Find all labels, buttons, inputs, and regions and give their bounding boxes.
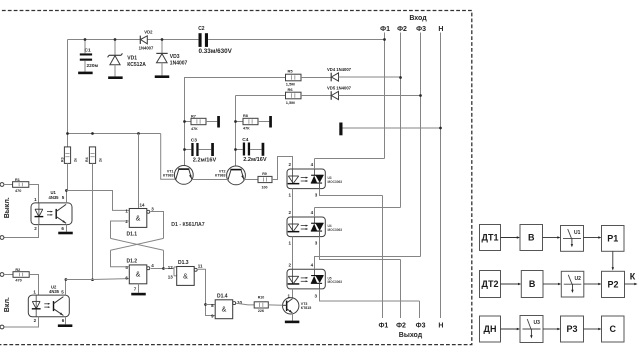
svg-text:R4: R4	[85, 157, 89, 162]
optocoupler U4	[287, 217, 325, 237]
svg-text:КТ815: КТ815	[301, 306, 311, 310]
gate D1.4	[215, 300, 233, 319]
wire Н column	[440, 33, 442, 319]
wire D1.3 out	[198, 269, 215, 315]
wire to D1.2 pin5	[111, 250, 130, 266]
node R4 junction	[91, 278, 94, 281]
capacitor C2	[199, 33, 202, 47]
wire D1.2 pin7	[138, 284, 140, 293]
svg-text:R9: R9	[262, 172, 267, 176]
svg-text:C4: C4	[242, 137, 248, 143]
svg-text:Вкл.: Вкл.	[4, 297, 11, 312]
svg-text:Н: Н	[438, 26, 443, 33]
resistor R7	[185, 121, 192, 123]
wire top rail y40	[68, 39, 141, 41]
dashed enclosure border	[0, 11, 472, 345]
wire U2 pin5	[65, 280, 67, 296]
svg-text:Н: Н	[438, 323, 443, 330]
terminal Вкл lower	[0, 325, 4, 329]
svg-text:14: 14	[140, 202, 146, 207]
svg-text:1,5М: 1,5М	[286, 100, 296, 105]
ground VD1	[108, 76, 123, 79]
svg-text:12: 12	[168, 265, 174, 270]
svg-text:Ф2: Ф2	[397, 26, 407, 33]
capacitor plate after C3	[199, 149, 212, 151]
diode VD2	[139, 36, 141, 44]
wire to D1.3 inputs	[164, 268, 175, 270]
wire R6-VD5	[301, 95, 331, 97]
arrow ДТ2-В	[501, 283, 519, 285]
wire U1 pin6	[66, 225, 68, 232]
optocoupler U1	[31, 203, 72, 225]
gate D1.2	[129, 265, 147, 284]
svg-text:C3: C3	[191, 137, 197, 143]
svg-text:Ф3: Ф3	[416, 26, 426, 33]
wire U3-U4 led link	[292, 189, 294, 217]
block С	[602, 316, 625, 342]
svg-text:МОС3063: МОС3063	[328, 280, 343, 284]
svg-text:В: В	[529, 279, 536, 289]
ground C1	[78, 72, 93, 75]
wire Ф2 output column	[400, 260, 402, 319]
wire U2 pin2 return	[4, 317, 39, 327]
svg-text:&: &	[183, 273, 188, 280]
wire VT1 collector feed	[184, 77, 186, 166]
svg-text:VD4 1N4007: VD4 1N4007	[327, 67, 352, 72]
wire R6 feed	[236, 95, 286, 97]
wire D1.4 out	[236, 303, 254, 305]
wire R10 to VT3	[268, 304, 282, 306]
wire C2 to Ф1	[208, 39, 384, 41]
wire U4-U5 led link	[292, 237, 294, 270]
block U1 isolator	[561, 226, 584, 252]
capacitor plate after C4	[250, 149, 262, 151]
wire U4 pin4	[314, 208, 316, 218]
wire VT2 to R9	[244, 179, 258, 181]
wire cross diag B	[111, 238, 164, 250]
svg-text:МОС3063: МОС3063	[328, 180, 343, 184]
svg-text:D1.4: D1.4	[217, 294, 228, 300]
wire U4 pin4 to Ф2	[315, 207, 401, 209]
wire D1.1 pin3 cross	[151, 212, 164, 239]
wire VT1-VT2 emitters	[192, 179, 228, 181]
transistor VT3	[283, 298, 299, 314]
wire U2 pin5 to D1.2	[66, 278, 130, 281]
block ДН	[480, 316, 501, 342]
svg-text:100: 100	[262, 185, 268, 189]
block ДТ2	[480, 271, 501, 298]
resistor R6	[286, 92, 302, 99]
wire left vertical drop	[67, 40, 69, 147]
resistor R10	[254, 302, 268, 308]
wire U1 pin2 return	[4, 225, 39, 238]
svg-text:D1.2: D1.2	[127, 258, 138, 264]
svg-text:VD3: VD3	[170, 54, 180, 60]
arrow В-U1	[543, 237, 558, 239]
svg-text:470: 470	[15, 279, 21, 283]
block U2 isolator	[561, 271, 584, 297]
ground D1.2	[131, 293, 146, 296]
wire Ф1 output column	[382, 196, 384, 319]
transistor VT1	[174, 166, 193, 185]
wire R1 to U1 pin1	[29, 185, 39, 203]
arrow ДН-U3	[501, 328, 518, 330]
svg-text:К: К	[630, 272, 636, 282]
svg-text:VD2: VD2	[144, 29, 153, 34]
ground U1	[58, 232, 73, 235]
svg-text:Выход: Выход	[399, 332, 423, 339]
block В lower	[521, 271, 543, 298]
svg-text:C2: C2	[198, 26, 205, 32]
capacitor plate after R7	[206, 121, 217, 123]
arrow U1-Р1	[584, 237, 599, 239]
node rail/pin14	[137, 132, 140, 135]
arrow ДТ1-В	[501, 237, 518, 239]
svg-text:R3: R3	[61, 157, 65, 162]
svg-text:ДН: ДН	[484, 324, 497, 334]
block В upper	[520, 225, 543, 251]
svg-text:220м: 220м	[87, 63, 99, 69]
wire D1.1 pin2 cross	[111, 221, 130, 238]
node rail/R4	[91, 132, 94, 135]
terminal Вкл upper	[0, 273, 4, 277]
block U3 isolator	[520, 316, 543, 343]
arrow U3-Р3	[543, 328, 558, 330]
wire U3 pin4	[314, 159, 316, 170]
svg-text:D1 - К561ЛА7: D1 - К561ЛА7	[171, 222, 204, 228]
node U1 pin5 junction	[65, 189, 68, 192]
diode VD4	[330, 73, 332, 82]
svg-text:470: 470	[15, 189, 21, 193]
svg-text:R10: R10	[258, 296, 265, 300]
wire R5 feed	[185, 77, 286, 79]
ground U2	[58, 324, 73, 327]
svg-text:U2: U2	[575, 276, 582, 282]
wire U5 pin3	[320, 289, 420, 301]
svg-text:&: &	[136, 215, 141, 222]
wire R2 to U2 pin1	[29, 275, 38, 296]
arrow Р2-К	[625, 283, 635, 285]
svg-text:КТ983: КТ983	[163, 174, 173, 178]
diode VD1	[114, 40, 116, 56]
resistor R4	[89, 147, 95, 164]
block Р1	[602, 226, 625, 252]
node VD5/Ф3	[419, 94, 422, 97]
gate D1.1	[129, 209, 147, 228]
optocoupler U2	[28, 295, 69, 317]
ground VT3	[285, 321, 300, 324]
resistor R3	[64, 147, 70, 164]
arrow U2-Р2	[584, 283, 599, 285]
svg-text:C1: C1	[85, 47, 91, 53]
node D1.4 input junction	[204, 303, 207, 306]
wire VT1 base	[161, 134, 176, 180]
svg-text:R8: R8	[243, 114, 248, 118]
wire to D1.4 pin8	[206, 304, 216, 306]
wire VT3 emitter	[292, 314, 294, 321]
svg-text:Р1: Р1	[607, 233, 618, 243]
svg-text:МОС3063: МОС3063	[328, 228, 343, 232]
wire R5-VD4	[301, 77, 331, 79]
svg-text:4N35: 4N35	[49, 195, 60, 200]
svg-text:КС512А: КС512А	[127, 62, 146, 68]
svg-text:ДТ1: ДТ1	[482, 233, 499, 243]
svg-text:Р3: Р3	[566, 324, 577, 334]
wire D1.2 out	[151, 250, 164, 268]
svg-text:U1: U1	[574, 230, 581, 236]
arrow Р3-С	[584, 328, 599, 330]
wire Ф3 input column	[420, 33, 422, 257]
wire VT2 collector feed	[235, 96, 237, 167]
optocoupler U3	[287, 169, 325, 189]
wire U5 to VT3	[292, 289, 294, 298]
resistor R1	[13, 182, 29, 188]
diode VD5	[330, 91, 332, 100]
gate D1.3	[177, 267, 195, 286]
wire Ф1 input column	[384, 33, 386, 159]
capacitor C4	[236, 149, 243, 151]
svg-text:1N4007: 1N4007	[139, 45, 154, 50]
svg-text:Ф2: Ф2	[396, 323, 406, 330]
diode VD3	[161, 40, 163, 54]
svg-text:Ф1: Ф1	[380, 26, 390, 33]
svg-text:R6: R6	[288, 87, 294, 92]
wire R9 to U3 pin2	[272, 157, 293, 180]
svg-text:Вход: Вход	[409, 15, 427, 22]
svg-text:D1.3: D1.3	[178, 260, 189, 266]
wire U3 pin3	[320, 189, 383, 196]
svg-text:Ф1: Ф1	[378, 323, 388, 330]
resistor R2	[13, 272, 29, 278]
transistor VT2	[227, 166, 246, 185]
svg-text:13: 13	[168, 274, 174, 279]
wire U3 pin4 to Ф1	[315, 158, 385, 160]
wire terminal to R1	[4, 184, 13, 186]
svg-text:R2: R2	[15, 268, 20, 272]
svg-text:2.2м/16V: 2.2м/16V	[243, 157, 267, 163]
node rail/R3	[66, 132, 69, 135]
node U2 pin5 junction	[65, 278, 68, 281]
wire cross diag A	[111, 238, 164, 250]
svg-text:С: С	[610, 324, 617, 334]
optocoupler U5	[287, 269, 325, 289]
block Р2	[602, 271, 625, 297]
svg-text:4N35: 4N35	[49, 289, 60, 294]
wire terminal to R2	[4, 274, 13, 276]
svg-text:В: В	[528, 233, 535, 243]
ground VD3	[155, 75, 170, 78]
svg-text:U3: U3	[534, 320, 541, 326]
block Р3	[561, 316, 584, 342]
wire +V rail	[68, 133, 161, 135]
svg-text:Р2: Р2	[607, 279, 618, 289]
capacitor plate to Н	[339, 123, 342, 136]
wire R3 to U1	[67, 163, 69, 190]
node VD4/Ф2	[399, 76, 402, 79]
resistor R9	[258, 176, 272, 182]
svg-text:D1.1: D1.1	[127, 231, 138, 237]
svg-text:2.2м/16V: 2.2м/16V	[193, 157, 217, 163]
svg-text:VD1: VD1	[127, 56, 137, 62]
terminal Выкл lower	[0, 236, 4, 240]
wire U1 pin5	[66, 191, 68, 203]
svg-text:&: &	[136, 272, 141, 279]
svg-text:&: &	[222, 307, 227, 314]
svg-text:2к: 2к	[98, 158, 102, 162]
node Н junction	[439, 127, 442, 130]
svg-text:0.33м/630V: 0.33м/630V	[199, 48, 233, 55]
arrow В-U2	[543, 283, 559, 285]
resistor R8	[236, 121, 244, 123]
svg-text:22К: 22К	[258, 309, 265, 313]
terminal Выкл upper	[0, 183, 4, 187]
svg-text:R1: R1	[15, 178, 20, 182]
arrow Р1-Р2	[612, 251, 614, 268]
block ДТ1	[480, 225, 501, 251]
svg-text:Выкл.: Выкл.	[4, 197, 11, 218]
svg-text:ДТ2: ДТ2	[482, 279, 499, 289]
capacitor C1	[84, 40, 86, 54]
svg-text:47К: 47К	[243, 127, 250, 131]
wire VD4 to Ф2	[339, 76, 401, 78]
wire U4 pin3	[320, 237, 401, 260]
capacitor plate after R8	[258, 121, 269, 123]
svg-text:VD5 1N4007: VD5 1N4007	[327, 85, 352, 90]
svg-text:1,5М: 1,5М	[286, 81, 296, 86]
wire Ф3 output column	[419, 301, 421, 318]
wire D1 pin14	[138, 134, 140, 209]
svg-text:47К: 47К	[191, 127, 198, 131]
node junction C2/Ф1	[383, 38, 386, 41]
node D1.2 out junction	[162, 267, 165, 270]
svg-text:R5: R5	[288, 68, 294, 73]
wire VD5 to Ф3	[339, 95, 421, 97]
wire R4 down	[92, 163, 94, 279]
svg-text:R7: R7	[191, 114, 196, 118]
capacitor C3	[185, 149, 192, 151]
wire Ф2 input column	[400, 33, 402, 208]
wire U1 pin5 to D1.1	[67, 191, 130, 211]
svg-text:11: 11	[198, 264, 203, 269]
svg-text:Ф3: Ф3	[416, 323, 426, 330]
svg-text:КТ983: КТ983	[215, 174, 225, 178]
resistor R5	[286, 74, 302, 81]
svg-text:1N4007: 1N4007	[170, 60, 188, 66]
svg-text:2к: 2к	[74, 158, 78, 162]
wire Ф3 feed to U5 pin4	[315, 257, 421, 270]
wire U2 pin6	[65, 317, 67, 325]
